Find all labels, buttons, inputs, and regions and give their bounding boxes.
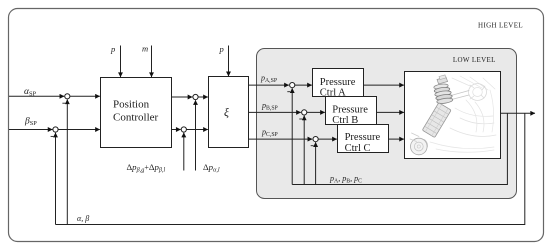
minus at S_C: [311, 145, 314, 147]
wire S2bot to xi: [187, 129, 208, 131]
faint right hub: [469, 84, 487, 101]
wire dp_beta input (vertical into S2bot): [183, 133, 185, 171]
block Position Controller: [101, 78, 172, 148]
wire xi to S_A: [249, 84, 289, 86]
wire m into Position Controller: [151, 46, 153, 78]
wire S_alpha to Position Controller: [70, 95, 100, 97]
summing node S_beta: [53, 127, 58, 132]
wire Pressure Ctrl B to plant: [377, 111, 404, 113]
LOW LEVEL gray region: [257, 49, 517, 199]
svg-text:m: m: [142, 44, 148, 54]
wire feedback up into S_beta: [55, 133, 57, 225]
wire beta_SP input: [9, 129, 52, 131]
wire xi to S_B: [249, 111, 301, 113]
wire Pressure Ctrl C to plant: [389, 138, 404, 140]
wire S2top to xi: [198, 96, 208, 98]
wire p into Position Controller: [120, 46, 122, 78]
wire plant main output: [501, 112, 536, 114]
wire S_B to Pressure Ctrl B: [307, 111, 325, 113]
svg-text:Pressure: Pressure: [332, 104, 368, 115]
wire PC lower output to S2bot: [172, 129, 181, 131]
summing node S_A: [290, 83, 295, 88]
svg-text:ξ: ξ: [224, 106, 229, 119]
shaft from rings to hub: [451, 91, 469, 100]
wire S_A to Pressure Ctrl A: [295, 84, 312, 86]
cylinder body: [422, 103, 451, 138]
block plant (machine drawing): [405, 72, 501, 159]
summing node S_alpha: [65, 94, 70, 99]
wire feedback up into S_C: [315, 142, 317, 184]
svg-text:α, β: α, β: [77, 214, 89, 223]
ring stack (coupling): [434, 83, 449, 90]
minus at S_B: [299, 118, 302, 120]
summing node S2top: [193, 94, 198, 99]
wire p into xi: [228, 46, 230, 77]
summing node S2bot: [181, 127, 186, 132]
svg-text:Pressure: Pressure: [320, 77, 356, 88]
top cap parts: [437, 77, 448, 84]
wire feedback up into S_A: [291, 88, 293, 184]
wire S_beta to Position Controller: [58, 129, 100, 131]
wire alpha,beta feedback down and across: [56, 113, 525, 224]
minus at S_alpha: [62, 102, 65, 104]
summing node S_C: [313, 137, 318, 142]
block xi: [209, 77, 249, 148]
svg-text:LOW LEVEL: LOW LEVEL: [453, 56, 496, 64]
wire S_C to Pressure Ctrl C: [318, 138, 337, 140]
faint background linework right side: [452, 76, 495, 90]
svg-text:pA, pB, pC: pA, pB, pC: [329, 174, 362, 185]
summing node S_B: [302, 110, 307, 115]
machine sketch: [410, 75, 496, 155]
block Pressure Ctrl A: [313, 69, 364, 97]
wire feedback branch up into S_alpha: [66, 100, 68, 225]
svg-text:Pressure: Pressure: [345, 132, 381, 143]
svg-text:Ctrl C: Ctrl C: [345, 143, 371, 154]
wire pressure feedback bus down: [292, 113, 507, 184]
svg-text:p: p: [110, 44, 115, 54]
minus at S_beta: [51, 135, 54, 137]
wire xi to S_C: [249, 138, 313, 140]
wire alpha_SP input: [9, 95, 64, 97]
wire feedback up into S_B: [303, 116, 305, 185]
svg-text:Controller: Controller: [113, 112, 159, 124]
wire dp_alpha input (vertical into S2top): [195, 100, 197, 170]
svg-text:p: p: [219, 44, 224, 54]
block Pressure Ctrl B: [326, 97, 377, 125]
bottom disc: [411, 138, 428, 155]
minus at S_A: [287, 91, 290, 93]
block Pressure Ctrl C: [338, 125, 389, 153]
wire PC upper output to S2top: [172, 96, 193, 98]
wire Pressure Ctrl A to plant: [364, 84, 404, 86]
svg-text:HIGH LEVEL: HIGH LEVEL: [478, 21, 523, 29]
svg-text:Position: Position: [113, 99, 150, 111]
